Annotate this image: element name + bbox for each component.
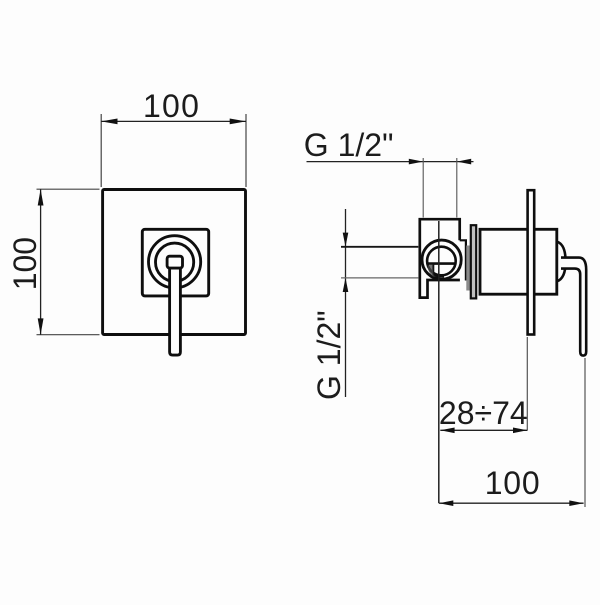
side view: cartridge cylinder bbox=[480, 229, 557, 294]
side view: wall plate (escutcheon, side) bbox=[528, 190, 535, 334]
front view: lever stem bbox=[170, 269, 181, 356]
dimension left 100: top arrow bbox=[38, 189, 44, 205]
front view: inner square escutcheon bbox=[142, 229, 208, 296]
front view: outer circle of handle rosette bbox=[149, 236, 201, 288]
svg-text:100: 100 bbox=[7, 237, 43, 290]
side view: slot line in inlet bbox=[428, 262, 456, 265]
dimension bottom 100: right arrow bbox=[569, 500, 583, 506]
dimension top 100: right arrow bbox=[230, 119, 246, 125]
dimension top 100: left arrow bbox=[101, 119, 117, 125]
dimension 28÷74: dimension line bbox=[440, 429, 527, 431]
side view top dimension: left arrow (points right) bbox=[409, 159, 423, 165]
side view left small dimension: up arrow bbox=[343, 278, 349, 292]
side view top dimension: extension lines bbox=[422, 158, 424, 218]
side view: mounting flange bbox=[471, 225, 476, 298]
side view left small dimension: vertical line bbox=[345, 209, 347, 397]
side view: dome cap bbox=[557, 242, 566, 282]
svg-text:G 1/2": G 1/2" bbox=[304, 127, 394, 163]
side view: inlet boss outer circle bbox=[422, 240, 461, 279]
dimension 28÷74: left arrow bbox=[440, 428, 454, 434]
svg-text:G 1/2": G 1/2" bbox=[311, 310, 347, 400]
svg-text:28÷74: 28÷74 bbox=[439, 395, 528, 431]
dimension left 100: bottom arrow bbox=[38, 318, 44, 334]
side view: lever handle bbox=[561, 258, 586, 356]
front view: inner circle of handle rosette bbox=[156, 243, 194, 281]
side view: valve body outline with bottom-left tab bbox=[420, 219, 460, 297]
svg-text:100: 100 bbox=[485, 465, 541, 501]
side view left small dimension: upper extension line bbox=[341, 246, 418, 248]
side view: gray seal strip bbox=[466, 246, 470, 291]
side view: center line of body bbox=[438, 221, 440, 503]
side view left small dimension: down arrow bbox=[343, 233, 349, 247]
dimension top 100: extension lines bbox=[100, 114, 102, 187]
dimension 28÷74: right arrow bbox=[513, 428, 527, 434]
front view: wall plate bbox=[103, 190, 246, 335]
side view top dimension: dimension line bbox=[307, 161, 474, 163]
side view left small dimension: lower extension line bbox=[341, 277, 418, 279]
side view top dimension: right arrow (points left) bbox=[457, 159, 471, 165]
dimension bottom 100: right extension line bbox=[584, 358, 586, 507]
dimension left 100: extension lines bbox=[37, 188, 100, 190]
side view: inlet inner circle bbox=[427, 247, 456, 276]
front view: lever base block bbox=[167, 256, 182, 268]
dimension 28÷74: right extension line bbox=[526, 337, 528, 431]
dimension bottom 100: left arrow bbox=[439, 500, 453, 506]
dimension left 100: dimension line bbox=[40, 189, 42, 335]
side view: step between body and flange bbox=[460, 240, 466, 280]
svg-text:100: 100 bbox=[143, 88, 200, 124]
dimension top 100: dimension line bbox=[101, 120, 246, 122]
side view: notch inside inlet bbox=[433, 264, 444, 277]
dimension bottom 100: dimension line bbox=[439, 502, 584, 504]
